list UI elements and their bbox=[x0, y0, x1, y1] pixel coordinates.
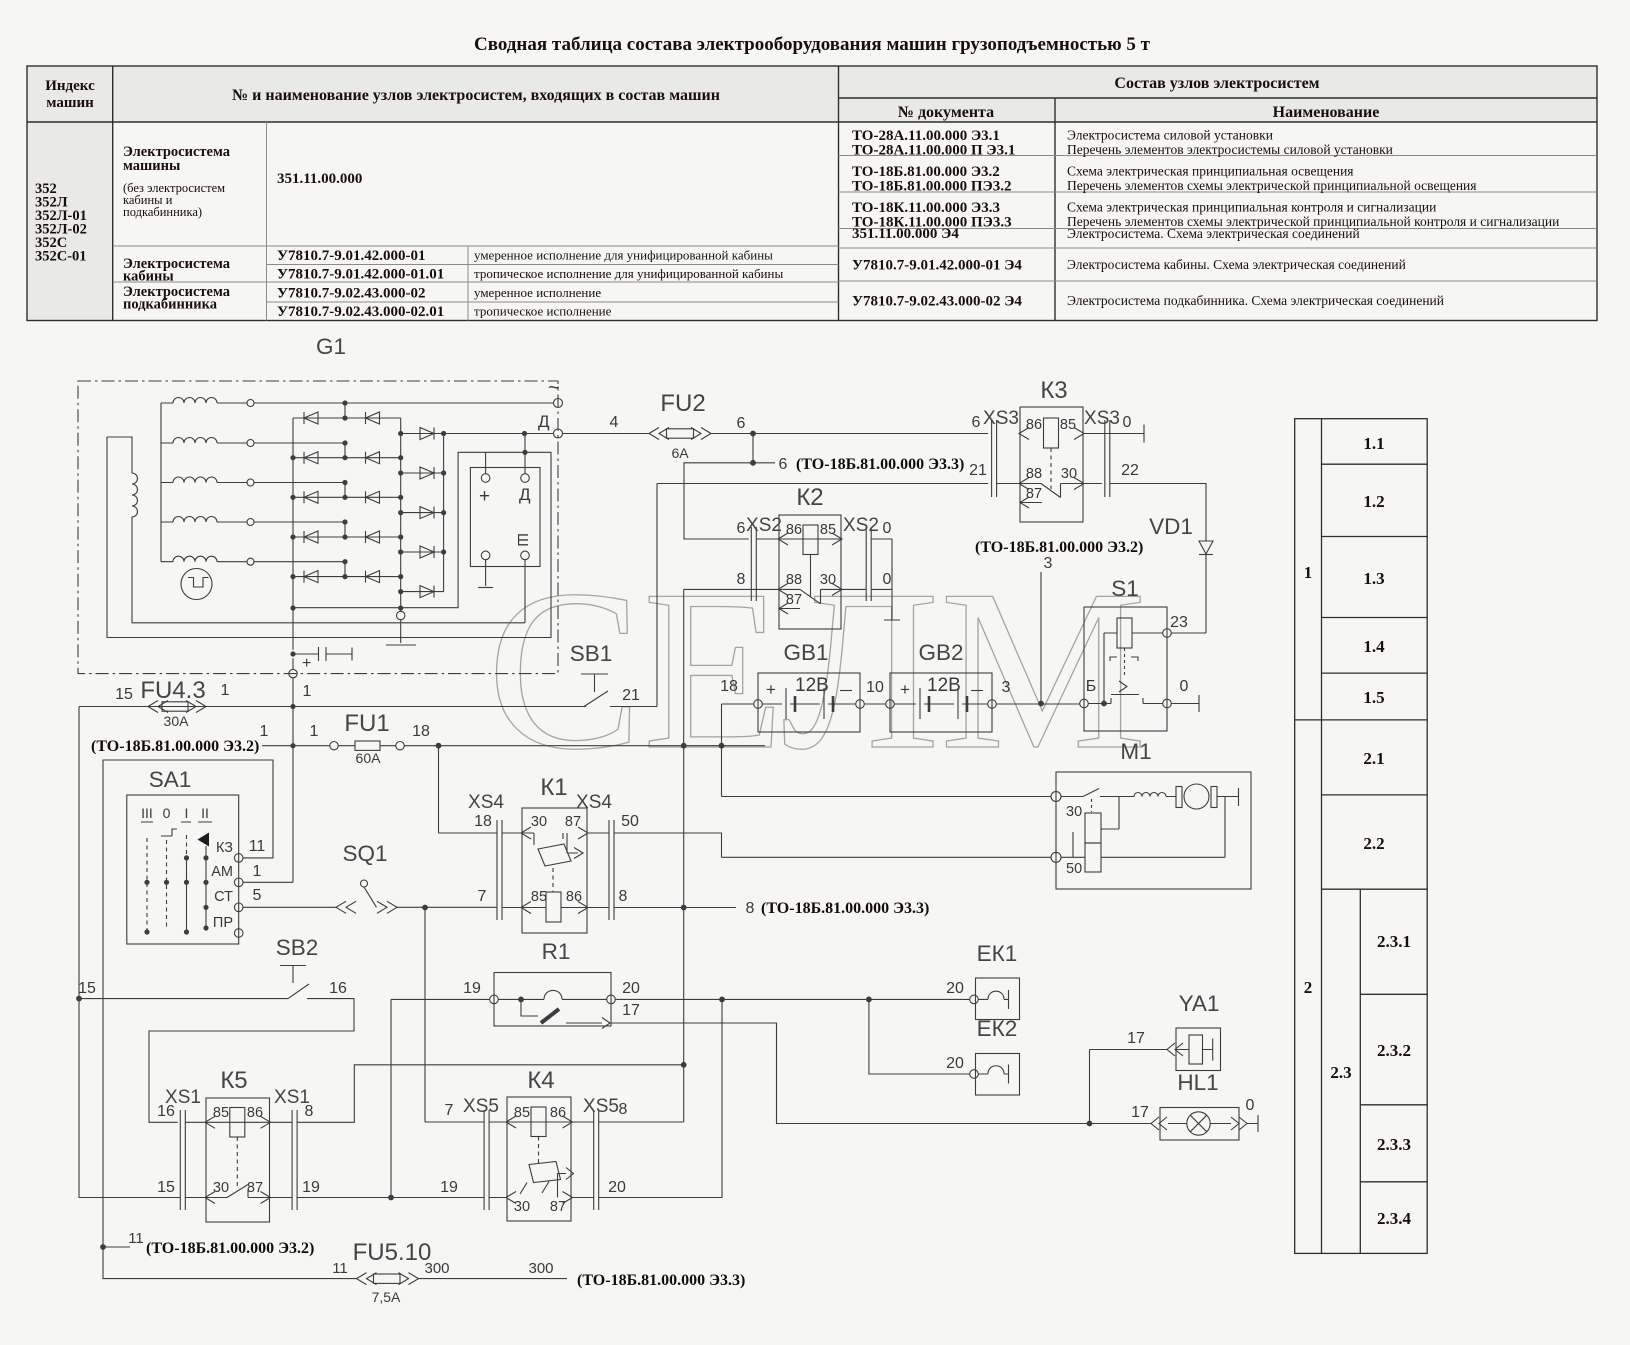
stator winding phase 5 bbox=[161, 556, 345, 565]
svg-text:86: 86 bbox=[550, 1105, 566, 1121]
wire 1 / FU1 line bbox=[262, 742, 765, 750]
svg-text:15: 15 bbox=[157, 1179, 175, 1196]
svg-text:Электросистема силовой установ: Электросистема силовой установки bbox=[1067, 128, 1273, 143]
excitation diode row 1 / Д line bbox=[401, 428, 554, 440]
connector XS3 right bbox=[1105, 420, 1110, 497]
SA1 contact column I bbox=[186, 835, 188, 932]
svg-text:1.2: 1.2 bbox=[1363, 492, 1384, 511]
svg-text:XS5: XS5 bbox=[583, 1096, 619, 1117]
svg-text:8: 8 bbox=[619, 1101, 628, 1118]
connector XS4 right bbox=[609, 820, 614, 920]
svg-text:21: 21 bbox=[969, 462, 987, 479]
svg-text:К3: К3 bbox=[1040, 377, 1067, 404]
diode VD1 bbox=[1199, 541, 1213, 633]
svg-text:30: 30 bbox=[1066, 804, 1082, 820]
svg-text:(ТО-18Б.81.00.000 Э3.3): (ТО-18Б.81.00.000 Э3.3) bbox=[577, 1272, 745, 1289]
svg-text:16: 16 bbox=[329, 980, 347, 997]
svg-text:ТО-28А.11.00.000 П Э3.1: ТО-28А.11.00.000 П Э3.1 bbox=[852, 143, 1015, 159]
relay K2 contact wire 88-30 bbox=[684, 583, 892, 603]
svg-text:85: 85 bbox=[213, 1105, 229, 1121]
relay K4 contact bbox=[489, 1162, 594, 1204]
diode row 4 bbox=[293, 522, 401, 543]
relay K4 bbox=[507, 1097, 571, 1221]
svg-text:20: 20 bbox=[622, 980, 640, 997]
wire 20 from R1 to EK1 bbox=[615, 998, 969, 1000]
wire 23 from S1 to VD1 bbox=[1171, 632, 1206, 634]
wire 11 bottom run bbox=[103, 1247, 567, 1279]
svg-text:АМ: АМ bbox=[211, 864, 233, 880]
diode bridge right bus bbox=[443, 434, 445, 592]
svg-text:18: 18 bbox=[412, 723, 430, 740]
svg-text:30: 30 bbox=[531, 814, 547, 830]
svg-text:+: + bbox=[479, 486, 490, 507]
svg-text:VD1: VD1 bbox=[1149, 514, 1193, 539]
svg-text:XS3: XS3 bbox=[1084, 408, 1120, 429]
wire 17 riser to YA1 bbox=[1090, 1050, 1168, 1124]
svg-text:1: 1 bbox=[221, 682, 230, 699]
wire 1 from SA1 AM bbox=[243, 746, 293, 883]
svg-text:8: 8 bbox=[619, 888, 628, 905]
svg-text:К2: К2 bbox=[796, 484, 823, 511]
svg-text:умеренное исполнение для унифи: умеренное исполнение для унифицированной… bbox=[474, 248, 773, 263]
connector XS4 left bbox=[497, 820, 502, 920]
svg-text:GB1: GB1 bbox=[783, 640, 828, 665]
svg-text:GB2: GB2 bbox=[918, 640, 963, 665]
svg-text:86: 86 bbox=[566, 889, 582, 905]
relay K2 coil bbox=[803, 525, 818, 597]
svg-text:0: 0 bbox=[1246, 1097, 1255, 1114]
relay K2 87 stub bbox=[779, 603, 800, 614]
svg-text:У7810.7-9.02.43.000-02.01: У7810.7-9.02.43.000-02.01 bbox=[277, 304, 444, 320]
svg-text:3: 3 bbox=[1002, 679, 1011, 696]
starter M1 box bbox=[1051, 772, 1251, 889]
svg-text:2.3.3: 2.3.3 bbox=[1377, 1135, 1411, 1154]
svg-text:XS4: XS4 bbox=[576, 792, 612, 813]
svg-text:2.3.4: 2.3.4 bbox=[1377, 1209, 1412, 1228]
diode row 3 bbox=[293, 483, 401, 504]
battery GB1 bbox=[754, 673, 865, 732]
svg-text:+: + bbox=[302, 655, 311, 672]
svg-text:(ТО-18Б.81.00.000 Э3.3): (ТО-18Б.81.00.000 Э3.3) bbox=[761, 900, 929, 917]
svg-text:88: 88 bbox=[786, 572, 802, 588]
svg-text:Индекс: Индекс bbox=[45, 78, 95, 94]
table header text bbox=[45, 75, 1379, 121]
svg-text:88: 88 bbox=[1026, 466, 1042, 482]
solenoid valve YA1 bbox=[1167, 1028, 1221, 1071]
svg-text:К5: К5 bbox=[220, 1067, 247, 1094]
svg-text:I: I bbox=[185, 805, 189, 821]
svg-text:кабины: кабины bbox=[123, 269, 174, 285]
wire 50 from K1 to M1 bbox=[614, 833, 1051, 857]
SA1 contact column II bbox=[205, 846, 207, 930]
S1 resistor element bbox=[1104, 618, 1163, 704]
svg-text:6: 6 bbox=[779, 456, 788, 473]
relay K5 contact 30-87 bbox=[185, 1185, 292, 1204]
wire 19 riser to R1 bbox=[391, 999, 490, 1197]
svg-text:У7810.7-9.02.43.000-02: У7810.7-9.02.43.000-02 bbox=[277, 286, 426, 302]
regulator enclosure wiring bbox=[107, 437, 551, 638]
svg-text:3: 3 bbox=[1044, 555, 1053, 572]
generator G1 border bbox=[78, 381, 558, 674]
wire 5 from SA1 CT bbox=[243, 906, 336, 908]
svg-text:1: 1 bbox=[253, 863, 262, 880]
relay K1 bbox=[522, 808, 587, 933]
connector XS3 left bbox=[992, 420, 997, 497]
svg-text:30А: 30А bbox=[164, 713, 190, 729]
svg-text:Электросистема подкабинника. С: Электросистема подкабинника. Схема элект… bbox=[1067, 293, 1444, 308]
svg-text:17: 17 bbox=[1127, 1030, 1145, 1047]
wire 15 left drop bbox=[78, 707, 80, 999]
relay K1 contact 30-87 bbox=[502, 827, 609, 866]
wire 0 from S1 bbox=[1171, 695, 1199, 712]
svg-text:тропическое исполнение: тропическое исполнение bbox=[474, 304, 612, 319]
svg-text:23: 23 bbox=[1170, 614, 1188, 631]
svg-text:II: II bbox=[201, 805, 209, 821]
svg-text:Электросистема кабины. Схема э: Электросистема кабины. Схема электрическ… bbox=[1067, 257, 1406, 272]
svg-text:К4: К4 bbox=[527, 1067, 554, 1094]
svg-text:7: 7 bbox=[478, 888, 487, 905]
glow plug EK2 bbox=[970, 1054, 1020, 1096]
svg-text:машины: машины bbox=[123, 158, 180, 174]
svg-text:№ документа: № документа bbox=[898, 104, 994, 121]
generator minus terminal and ground bbox=[386, 611, 416, 645]
svg-text:85: 85 bbox=[514, 1105, 530, 1121]
svg-text:Перечень элементов электросист: Перечень элементов электросистемы силово… bbox=[1067, 142, 1393, 157]
diode row 5 bbox=[293, 562, 401, 583]
svg-text:тропическое исполнение для уни: тропическое исполнение для унифицированн… bbox=[474, 266, 783, 281]
wire 16 from SB2 to K5 bbox=[149, 999, 354, 1123]
svg-text:20: 20 bbox=[946, 1055, 964, 1072]
svg-text:11: 11 bbox=[249, 838, 266, 855]
svg-text:10: 10 bbox=[866, 679, 884, 696]
svg-text:351.11.00.000 Э4: 351.11.00.000 Э4 bbox=[852, 226, 959, 242]
excitation diode row 4 bbox=[401, 546, 444, 558]
SA1 contact column III bbox=[146, 838, 148, 935]
glow plug EK1 bbox=[970, 978, 1020, 1020]
svg-text:(ТО-18Б.81.00.000 Э3.3): (ТО-18Б.81.00.000 Э3.3) bbox=[796, 456, 964, 473]
svg-text:30: 30 bbox=[213, 1180, 229, 1196]
svg-text:1.1: 1.1 bbox=[1363, 434, 1384, 453]
svg-text:1.4: 1.4 bbox=[1363, 637, 1385, 656]
svg-text:18: 18 bbox=[720, 678, 738, 695]
svg-text:машин: машин bbox=[46, 95, 94, 111]
connector XS1 left bbox=[180, 1110, 185, 1210]
wire 0 from K3 bbox=[1083, 425, 1144, 443]
SA1 position pointer bbox=[198, 833, 210, 847]
svg-text:Схема электрическая принципиал: Схема электрическая принципиальная освещ… bbox=[1067, 164, 1354, 179]
push button SB2 bbox=[280, 966, 309, 999]
wire 10 between batteries bbox=[864, 703, 885, 705]
ignition switch SA1 wire 11 route bbox=[103, 760, 273, 1247]
svg-text:У7810.7-9.01.42.000-01 Э4: У7810.7-9.01.42.000-01 Э4 bbox=[852, 258, 1022, 274]
starter M1 internals bbox=[1061, 784, 1239, 872]
svg-text:К1: К1 bbox=[540, 774, 567, 801]
connector XS2 left bbox=[751, 527, 756, 601]
battery GB2 bbox=[886, 673, 997, 732]
cross sheet reference texts bbox=[91, 456, 1143, 1289]
svg-text:15: 15 bbox=[115, 686, 133, 703]
table header fill bbox=[27, 66, 1597, 321]
stator winding phase 2 bbox=[161, 438, 345, 447]
relay K3 87 stub bbox=[1020, 497, 1042, 508]
rotor field winding bbox=[107, 437, 525, 623]
fuse FU4.3 bbox=[148, 701, 206, 713]
connector labels bbox=[165, 408, 1120, 1117]
svg-text:19: 19 bbox=[302, 1179, 320, 1196]
svg-text:ПР: ПР bbox=[213, 915, 233, 931]
svg-text:1.3: 1.3 bbox=[1363, 569, 1384, 588]
svg-text:16: 16 bbox=[157, 1103, 175, 1120]
svg-text:Состав узлов электросистем: Состав узлов электросистем bbox=[1114, 75, 1319, 92]
switch SQ1 bbox=[336, 880, 497, 913]
resistor R1 box bbox=[490, 973, 616, 1027]
svg-text:Электросистема. Схема электрич: Электросистема. Схема электрическая соед… bbox=[1067, 226, 1360, 241]
wire 0 from K2 bbox=[884, 539, 900, 620]
svg-text:КЗ: КЗ bbox=[216, 840, 233, 856]
diode row 2 bbox=[293, 443, 401, 464]
svg-text:86: 86 bbox=[1026, 417, 1042, 433]
svg-text:Сводная таблица состава электр: Сводная таблица состава электрооборудова… bbox=[474, 34, 1151, 55]
svg-text:19: 19 bbox=[463, 980, 481, 997]
relay K3 top wire arrows bbox=[1019, 428, 1084, 440]
svg-text:6: 6 bbox=[737, 415, 746, 432]
diode bridge left bus bbox=[292, 418, 294, 608]
stator winding phase 3 bbox=[161, 477, 345, 486]
svg-text:(ТО-18Б.81.00.000 Э3.2): (ТО-18Б.81.00.000 Э3.2) bbox=[146, 1240, 314, 1257]
wire 21 to K3 bbox=[657, 483, 988, 485]
excitation diode row 5 bbox=[401, 586, 444, 598]
relay K4 coil wire bbox=[489, 1107, 594, 1137]
svg-text:17: 17 bbox=[622, 1002, 640, 1019]
fuse FU2 bbox=[649, 428, 711, 440]
svg-text:85: 85 bbox=[531, 889, 547, 905]
generator terminal 1 (bottom) bbox=[289, 608, 297, 707]
svg-text:85: 85 bbox=[820, 522, 836, 538]
wire 7 riser SQ1 to K4 bbox=[425, 908, 484, 1123]
connector XS5 right bbox=[594, 1110, 599, 1210]
svg-text:умеренное исполнение: умеренное исполнение bbox=[474, 285, 601, 300]
wire 8 from K1 to stub bbox=[614, 907, 736, 909]
svg-text:20: 20 bbox=[608, 1179, 626, 1196]
wire 3 stub to sheet E3.2 bbox=[1040, 572, 1042, 704]
wire 1 vertical bus bbox=[292, 707, 294, 746]
svg-text:(ТО-18Б.81.00.000 Э3.2): (ТО-18Б.81.00.000 Э3.2) bbox=[975, 539, 1143, 556]
relay K1 link bbox=[552, 868, 554, 892]
wire 22 to VD1 bbox=[1110, 484, 1206, 542]
svg-text:86: 86 bbox=[247, 1105, 263, 1121]
svg-text:R1: R1 bbox=[542, 939, 571, 964]
wire 20 from K4 bbox=[599, 999, 722, 1197]
svg-text:У7810.7-9.01.42.000-01: У7810.7-9.01.42.000-01 bbox=[277, 248, 426, 264]
svg-text:Д: Д bbox=[538, 412, 550, 431]
svg-text:351.11.00.000: 351.11.00.000 bbox=[277, 171, 362, 187]
svg-text:8: 8 bbox=[737, 571, 746, 588]
svg-text:У7810.7-9.01.42.000-01.01: У7810.7-9.01.42.000-01.01 bbox=[277, 267, 444, 283]
wire 19 from K5 to K4 bbox=[297, 1197, 484, 1199]
svg-text:FU2: FU2 bbox=[660, 390, 705, 417]
svg-text:19: 19 bbox=[440, 1179, 458, 1196]
wire 8 riser from K2 to K4 bbox=[683, 589, 685, 1122]
svg-text:22: 22 bbox=[1121, 462, 1139, 479]
relay K2 top wire bbox=[756, 533, 892, 545]
svg-text:12В: 12В bbox=[795, 675, 829, 696]
wire 18 drop from FU1 to K1 bbox=[439, 746, 498, 833]
stator winding phase 4 bbox=[161, 517, 345, 526]
svg-text:87: 87 bbox=[565, 814, 581, 830]
svg-text:№ и наименование узлов электро: № и наименование узлов электросистем, вх… bbox=[232, 87, 720, 104]
svg-text:30: 30 bbox=[820, 572, 836, 588]
small value labels bbox=[164, 445, 690, 1305]
svg-text:СЕЛМ: СЕЛМ bbox=[487, 542, 1147, 797]
svg-text:YA1: YA1 bbox=[1179, 991, 1220, 1016]
svg-text:21: 21 bbox=[622, 687, 640, 704]
relay K3 bbox=[1020, 407, 1083, 522]
svg-text:Наименование: Наименование bbox=[1273, 104, 1380, 121]
relay K3 coil bbox=[1044, 418, 1059, 489]
excitation diode row 2 bbox=[401, 467, 444, 479]
svg-text:SB2: SB2 bbox=[276, 935, 319, 960]
svg-text:FU5.10: FU5.10 bbox=[353, 1239, 432, 1266]
svg-text:6А: 6А bbox=[671, 445, 689, 461]
svg-text:4: 4 bbox=[610, 414, 619, 431]
wire 3 battery to S1 bbox=[996, 703, 1079, 705]
svg-text:~: ~ bbox=[548, 377, 560, 399]
wire 4 / FU2 line bbox=[563, 433, 989, 435]
svg-text:SA1: SA1 bbox=[149, 767, 192, 792]
wire 18 riser GB1 to M1 bbox=[722, 704, 1051, 797]
svg-text:XS5: XS5 bbox=[463, 1096, 499, 1117]
svg-text:300: 300 bbox=[424, 1260, 449, 1277]
svg-text:15: 15 bbox=[78, 980, 96, 997]
svg-text:352С-01: 352С-01 bbox=[35, 249, 87, 265]
SA1 position marks bbox=[141, 821, 212, 823]
svg-text:FU1: FU1 bbox=[344, 710, 389, 737]
svg-text:300: 300 bbox=[528, 1260, 553, 1277]
svg-text:7: 7 bbox=[445, 1102, 454, 1119]
svg-text:30: 30 bbox=[1061, 466, 1077, 482]
generator output terminal ~ bbox=[554, 399, 563, 408]
svg-text:ТО-18Б.81.00.000 ПЭ3.2: ТО-18Б.81.00.000 ПЭ3.2 bbox=[852, 179, 1011, 195]
wire numbers bbox=[78, 414, 1254, 1277]
svg-text:11: 11 bbox=[332, 1260, 348, 1277]
relay K4 link bbox=[538, 1137, 540, 1164]
SA1 contact column 0 bbox=[161, 829, 177, 930]
svg-text:HL1: HL1 bbox=[1177, 1070, 1218, 1095]
svg-text:18: 18 bbox=[474, 813, 492, 830]
svg-text:17: 17 bbox=[1131, 1104, 1149, 1121]
svg-text:2.1: 2.1 bbox=[1363, 749, 1384, 768]
battery switch S1 box bbox=[1080, 607, 1172, 731]
svg-text:SQ1: SQ1 bbox=[342, 841, 387, 866]
resistor R1 fusible link bbox=[521, 999, 610, 1028]
svg-text:У7810.7-9.02.43.000-02 Э4: У7810.7-9.02.43.000-02 Э4 bbox=[852, 294, 1022, 310]
stator phase bus bbox=[160, 403, 162, 562]
svg-text:60А: 60А bbox=[356, 750, 382, 766]
svg-text:0: 0 bbox=[883, 520, 892, 537]
wire 20 branch to EK2 bbox=[869, 999, 970, 1074]
svg-text:11: 11 bbox=[128, 1230, 144, 1247]
wire 15 to SB2 bbox=[79, 998, 288, 1000]
svg-text:XS2: XS2 bbox=[746, 515, 782, 536]
svg-text:85: 85 bbox=[1060, 417, 1076, 433]
svg-text:G1: G1 bbox=[316, 334, 346, 359]
svg-text:50: 50 bbox=[1066, 861, 1082, 877]
fuse FU5.10 bbox=[357, 1273, 419, 1285]
relay K2 bbox=[779, 515, 841, 629]
wire 17 from R1 bbox=[611, 1023, 1151, 1124]
table col1 bbox=[35, 181, 87, 265]
svg-text:50: 50 bbox=[621, 813, 639, 830]
resistor R1 element bbox=[498, 990, 607, 999]
connector XS1 right bbox=[292, 1110, 297, 1210]
svg-text:87: 87 bbox=[1026, 486, 1042, 502]
svg-text:Д: Д bbox=[519, 485, 531, 504]
svg-text:XS3: XS3 bbox=[983, 408, 1019, 429]
svg-text:2: 2 bbox=[1304, 978, 1313, 997]
SA1 position roman numerals bbox=[141, 805, 209, 821]
S1 contact bbox=[1088, 648, 1162, 704]
svg-text:2.3.2: 2.3.2 bbox=[1377, 1041, 1411, 1060]
table right columns bbox=[852, 128, 1559, 310]
svg-text:СТ: СТ bbox=[214, 889, 233, 905]
svg-text:2.3.1: 2.3.1 bbox=[1377, 932, 1411, 951]
svg-text:+: + bbox=[900, 680, 910, 699]
svg-text:7,5А: 7,5А bbox=[372, 1289, 401, 1305]
svg-text:III: III bbox=[141, 805, 153, 821]
legend table bbox=[1295, 419, 1428, 1254]
svg-text:Ш: Ш bbox=[514, 533, 531, 547]
lamp HL1 bbox=[1151, 1108, 1258, 1141]
svg-text:подкабинника): подкабинника) bbox=[123, 205, 202, 219]
svg-text:XS2: XS2 bbox=[843, 515, 879, 536]
svg-text:1: 1 bbox=[260, 723, 269, 740]
diode row 1 bbox=[293, 403, 401, 424]
svg-text:5: 5 bbox=[253, 887, 262, 904]
svg-text:FU4.3: FU4.3 bbox=[140, 677, 205, 704]
connector XS5 left bbox=[484, 1110, 489, 1210]
svg-text:87: 87 bbox=[550, 1199, 566, 1215]
stator winding phase 1 bbox=[161, 398, 554, 407]
svg-text:0: 0 bbox=[1180, 678, 1189, 695]
svg-text:ЕК1: ЕК1 bbox=[977, 941, 1018, 966]
svg-text:20: 20 bbox=[946, 980, 964, 997]
ignition switch SA1 box bbox=[127, 795, 243, 944]
svg-text:86: 86 bbox=[786, 522, 802, 538]
svg-text:XS4: XS4 bbox=[468, 792, 504, 813]
table grid bbox=[27, 66, 1597, 321]
svg-text:0: 0 bbox=[163, 805, 171, 821]
fuse FU1 bbox=[355, 741, 380, 750]
regulator ground lead bbox=[478, 560, 493, 588]
excitation diode row 3 bbox=[401, 507, 444, 519]
regulator plus lead bbox=[485, 452, 487, 473]
svg-text:87: 87 bbox=[786, 592, 802, 608]
diode bridge mid bus bbox=[400, 418, 402, 611]
svg-text:2.3: 2.3 bbox=[1330, 1063, 1351, 1082]
regulator Д lead bbox=[524, 434, 526, 474]
svg-text:(ТО-18Б.81.00.000 Э3.2): (ТО-18Б.81.00.000 Э3.2) bbox=[91, 738, 259, 755]
push button SB1 bbox=[581, 674, 608, 707]
svg-text:1: 1 bbox=[310, 723, 319, 740]
svg-text:+: + bbox=[766, 680, 776, 699]
relay K5 coil wire bbox=[185, 1108, 292, 1138]
wire 15 main bus bbox=[79, 706, 657, 708]
svg-text:6: 6 bbox=[972, 414, 981, 431]
svg-text:8: 8 bbox=[746, 900, 755, 917]
svg-text:0: 0 bbox=[1123, 414, 1132, 431]
svg-text:S1: S1 bbox=[1111, 576, 1139, 601]
voltage regulator box bbox=[470, 468, 540, 567]
